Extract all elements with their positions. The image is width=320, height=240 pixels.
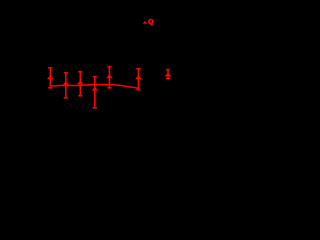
error bar point 6 (136, 69, 140, 90)
fit curve (50, 85, 139, 89)
marker point 2 (62, 81, 69, 85)
error bar point 5 (107, 67, 111, 88)
marker point 3 (77, 80, 84, 84)
marker point 5 (106, 74, 113, 78)
error bar point 2 (64, 73, 68, 98)
legend marker (143, 21, 148, 24)
error bar point 7 (166, 70, 170, 79)
error bar point 3 (78, 72, 82, 96)
marker point 1 (47, 75, 54, 79)
error bar point 4 (93, 77, 97, 108)
svg-text:Q: Q (148, 17, 154, 26)
error bar point 1 (48, 68, 52, 88)
marker point 7 (165, 72, 172, 76)
marker point 6 (135, 75, 142, 79)
marker point 4 (91, 87, 98, 91)
